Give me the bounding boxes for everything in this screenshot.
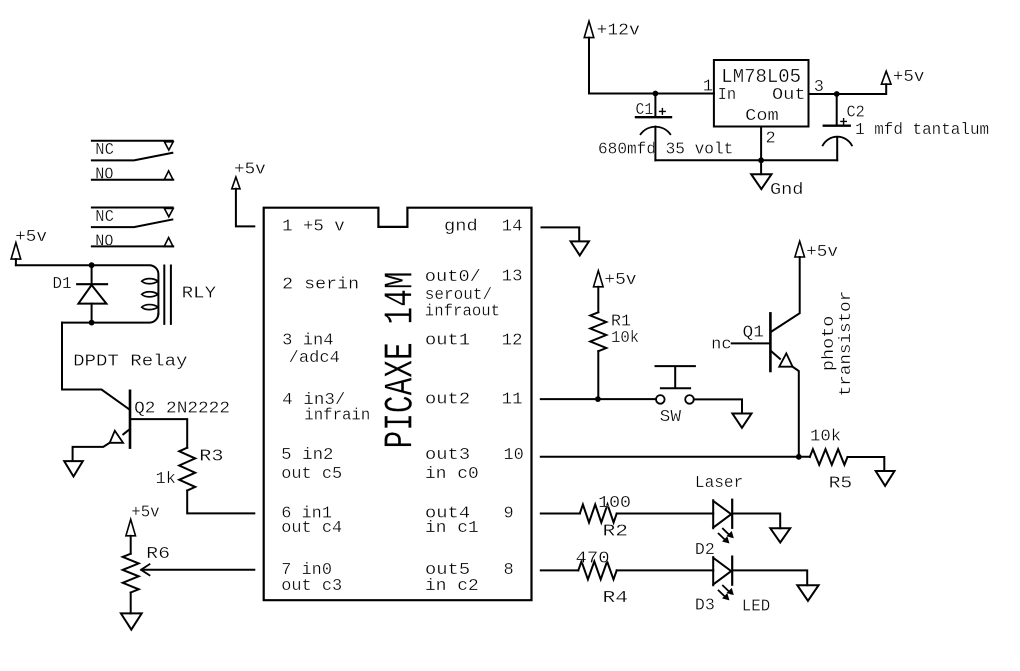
label PICAXE 14M <box>378 272 424 449</box>
svg-text:3 in4: 3 in4 <box>282 331 333 350</box>
wire IC pin 10 to R5 <box>541 456 810 458</box>
pin 12 label out1 <box>425 331 523 350</box>
capacitor C1 680mfd 35 volt <box>598 94 733 161</box>
regulator U1 LM78L05 <box>714 60 809 127</box>
svg-text:Out: Out <box>772 86 806 105</box>
wire IC pin 14 to ground <box>542 227 580 240</box>
label photo transistor <box>820 291 856 397</box>
node relay coil top junction <box>89 262 95 268</box>
node R1/SW junction <box>595 396 601 402</box>
wire relay coil bottom <box>62 314 158 323</box>
svg-text:1 +5 v: 1 +5 v <box>282 218 345 237</box>
wire ground bus C1 to C2 <box>655 159 837 161</box>
svg-text:10k: 10k <box>611 329 639 348</box>
wire R6 bottom to ground <box>130 593 132 614</box>
svg-text:SW: SW <box>660 408 682 427</box>
capacitor C2 1 mfd tantalum <box>823 94 989 160</box>
svg-text:12: 12 <box>502 331 523 350</box>
svg-text:+5v: +5v <box>604 271 636 290</box>
relay contact pair 1 NO <box>92 166 173 185</box>
wire R4 to D3 <box>617 569 714 571</box>
label DPDT Relay <box>73 352 187 371</box>
ground R5 <box>876 471 895 486</box>
svg-text:PICAXE 14M: PICAXE 14M <box>378 272 424 449</box>
relay contact pair 1 NC <box>92 141 173 160</box>
svg-text:R5: R5 <box>829 474 853 493</box>
wire SW to ground <box>694 399 742 413</box>
svg-text:1: 1 <box>703 77 713 96</box>
pin 10 label out3 in c0 <box>425 446 524 484</box>
svg-text:+5v: +5v <box>15 228 47 247</box>
svg-text:9: 9 <box>504 504 514 523</box>
wire R6 wiper to IC pin 7 <box>141 564 254 575</box>
svg-text:DPDT Relay: DPDT Relay <box>73 352 187 371</box>
relay contact pair 2 common arm <box>92 220 172 228</box>
svg-text:D3: D3 <box>695 596 715 615</box>
ground D2 <box>770 528 790 542</box>
power flag +5v R6 <box>126 504 160 554</box>
svg-text:NC: NC <box>95 141 114 160</box>
wire IC pin 11 to switch <box>541 398 656 400</box>
ground SW <box>732 414 751 428</box>
wire Q2 base to R3 <box>130 419 187 448</box>
pin 6 label in1 out c4 <box>281 504 342 538</box>
resistor R2 100 <box>580 494 631 541</box>
pin 9 label out4 in c1 <box>425 504 514 538</box>
power flag +5v regulator output <box>881 68 924 94</box>
pin 5 label in2 out c5 <box>281 446 342 484</box>
svg-text:out3: out3 <box>425 446 470 465</box>
ground Gnd <box>751 174 803 200</box>
pin 7 label in0 out c3 <box>281 561 342 596</box>
pin 3 label of U1 <box>814 78 824 97</box>
wire +12v to regulator input pin 1 <box>589 38 714 94</box>
svg-text:D1: D1 <box>52 275 71 294</box>
svg-text:D2: D2 <box>695 541 715 560</box>
ground R6 <box>121 613 142 629</box>
svg-text:Com: Com <box>745 107 779 126</box>
svg-text:LED: LED <box>742 598 771 617</box>
wire regulator pin 2 to ground <box>760 127 762 175</box>
svg-text:2: 2 <box>766 130 776 149</box>
svg-text:in c0: in c0 <box>425 465 479 484</box>
svg-text:+5v: +5v <box>234 161 266 180</box>
svg-text:1k: 1k <box>156 470 177 489</box>
IC U2 PICAXE 14M body <box>264 208 532 601</box>
svg-text:+5v: +5v <box>893 68 924 87</box>
svg-text:out c4: out c4 <box>281 519 342 538</box>
wire R3 to IC pin 6 <box>187 491 254 514</box>
transistor Q1 phototransistor <box>711 313 799 456</box>
wire +5v to Q1 collector <box>771 257 799 332</box>
svg-text:nc: nc <box>711 336 732 355</box>
svg-text:out0/: out0/ <box>425 268 481 287</box>
svg-text:out c5: out c5 <box>281 465 342 484</box>
svg-text:In: In <box>718 86 737 105</box>
ground D3 <box>797 585 818 601</box>
svg-text:14: 14 <box>502 218 523 237</box>
svg-text:NC: NC <box>95 208 114 227</box>
svg-text:in c2: in c2 <box>425 577 479 596</box>
power flag +5v Q1 <box>795 241 838 262</box>
node Q1 emitter junction <box>796 454 802 460</box>
resistor R4 470 <box>576 549 629 608</box>
pin 2 label serin <box>282 275 359 294</box>
svg-text:R2: R2 <box>603 522 629 541</box>
svg-text:out c3: out c3 <box>281 577 342 596</box>
wire R1 to pin 11 net <box>597 351 599 399</box>
svg-text:Laser: Laser <box>695 474 743 493</box>
svg-text:11: 11 <box>502 391 523 410</box>
switch SW pushbutton <box>656 366 695 427</box>
svg-text:10: 10 <box>504 446 524 465</box>
relay contact pair 2 NC <box>92 208 173 227</box>
svg-text:1 mfd tantalum: 1 mfd tantalum <box>855 121 989 140</box>
wire IC pin 8 to R4 <box>541 569 579 571</box>
pin 8 label out5 in c2 <box>425 561 514 596</box>
relay core lines <box>164 266 171 324</box>
svg-text:8: 8 <box>504 561 514 580</box>
wire IC pin 9 to R2 <box>541 513 580 515</box>
resistor R5 10k <box>810 427 852 493</box>
ground Q2 emitter <box>64 461 83 476</box>
power flag +5v IC pin 1 <box>232 161 266 227</box>
wire R5 to ground <box>848 457 885 471</box>
svg-text:in c1: in c1 <box>425 519 479 538</box>
relay coil RLY <box>142 279 216 310</box>
node C1/input junction <box>653 91 659 97</box>
transistor Q2 2N2222 <box>73 391 230 461</box>
wire D2 to ground <box>733 514 780 529</box>
svg-text:out2: out2 <box>425 391 470 410</box>
svg-text:5 in2: 5 in2 <box>281 446 333 465</box>
pin 3 label in4 adc4 <box>282 331 340 368</box>
pin 11 label out2 <box>425 391 523 410</box>
svg-text:Q2 2N2222: Q2 2N2222 <box>134 399 230 418</box>
svg-text:R4: R4 <box>603 589 629 608</box>
svg-text:10k: 10k <box>810 427 841 446</box>
wire +5v to relay coil top <box>16 265 159 313</box>
svg-text:2 serin: 2 serin <box>282 275 359 294</box>
wire R2 to D2 <box>617 513 714 515</box>
svg-text:gnd: gnd <box>444 218 478 237</box>
diode D3 LED <box>695 557 770 617</box>
svg-text:infrain: infrain <box>304 407 370 426</box>
svg-text:C1: C1 <box>636 101 654 120</box>
svg-text:NO: NO <box>95 166 113 185</box>
svg-text:out1: out1 <box>425 331 470 350</box>
diode D2 laser <box>695 474 743 560</box>
pin 14 label gnd <box>444 218 523 237</box>
pin 13 label out0 serout infraout <box>425 267 523 321</box>
node ground bus junction <box>758 157 764 163</box>
svg-text:/adc4: /adc4 <box>289 349 340 368</box>
svg-text:13: 13 <box>502 267 523 286</box>
svg-text:+5v: +5v <box>131 504 159 523</box>
svg-text:transistor: transistor <box>837 291 856 397</box>
resistor R1 10k <box>590 312 639 351</box>
relay contact pair 2 NO <box>92 232 173 251</box>
resistor R3 1k <box>156 448 224 491</box>
svg-text:infraout: infraout <box>425 303 500 322</box>
ground pin 14 <box>571 241 589 255</box>
diode D1 flyback <box>52 265 107 322</box>
svg-text:LM78L05: LM78L05 <box>721 66 801 88</box>
power flag +5v R1 <box>594 271 637 313</box>
svg-text:R3: R3 <box>199 448 223 467</box>
svg-text:470: 470 <box>576 549 610 568</box>
svg-text:+12v: +12v <box>597 22 640 41</box>
svg-text:Q1: Q1 <box>743 323 764 342</box>
wire regulator output pin 3 to +5v <box>809 93 886 95</box>
svg-text:RLY: RLY <box>182 285 217 304</box>
svg-text:680mfd 35 volt: 680mfd 35 volt <box>598 140 733 159</box>
node C2/output junction <box>834 91 840 97</box>
pin 1 label +5 v <box>282 218 345 237</box>
pin 2 label of U1 <box>766 130 776 149</box>
power flag +5v relay supply <box>11 228 47 265</box>
relay contact pair 1 common arm <box>92 153 172 161</box>
svg-text:C2: C2 <box>847 104 865 123</box>
svg-text:+5v: +5v <box>806 243 838 262</box>
potentiometer R6 <box>123 545 170 592</box>
svg-text:R6: R6 <box>146 545 170 564</box>
svg-text:Gnd: Gnd <box>770 181 803 200</box>
svg-text:NO: NO <box>95 232 113 251</box>
wire relay to Q2 collector <box>62 323 129 410</box>
wire D3 to ground <box>733 570 807 585</box>
svg-text:100: 100 <box>598 494 631 513</box>
pin 4 label in3 infrain <box>282 391 370 425</box>
pin 1 label of U1 <box>703 77 713 96</box>
node relay coil bottom junction <box>89 320 95 326</box>
power flag +12v <box>584 21 640 40</box>
